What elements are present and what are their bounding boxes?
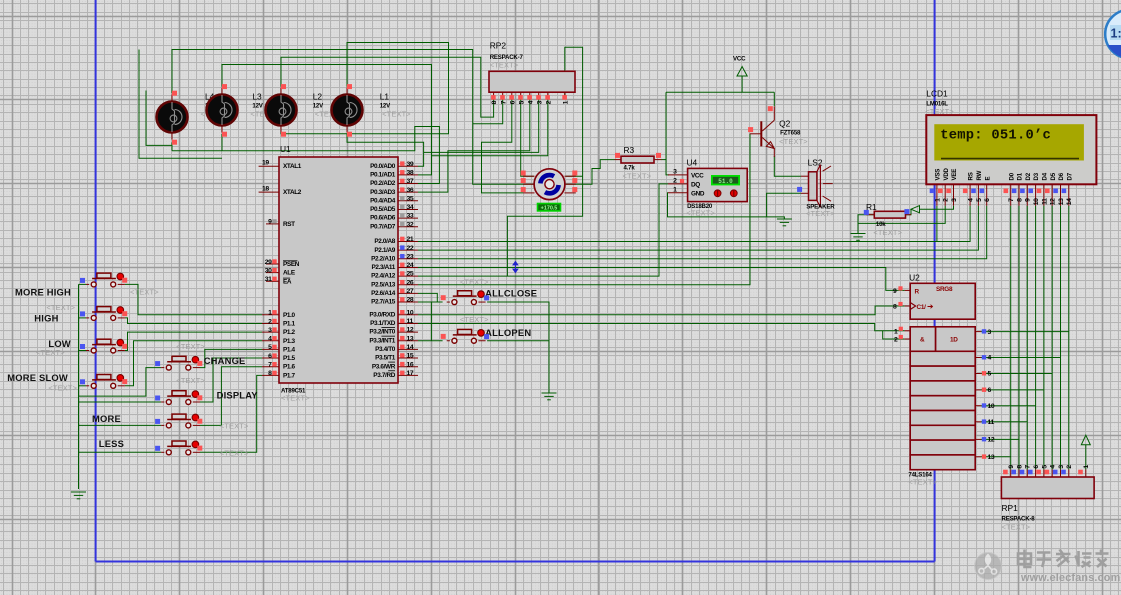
watermark elecfans logo <box>975 553 1002 580</box>
svg-text:<TEXT>: <TEXT> <box>873 228 902 237</box>
svg-text:P0.7/AD7: P0.7/AD7 <box>370 223 396 230</box>
svg-text:P3.2/INT0: P3.2/INT0 <box>369 329 395 336</box>
wire left ground rail <box>78 284 80 489</box>
svg-text:34: 34 <box>407 204 414 211</box>
svg-text:P2.7/A15: P2.7/A15 <box>371 299 396 306</box>
U1 right pins P2 <box>398 241 418 243</box>
transistor Q2 FZT658 <box>750 106 808 157</box>
button MORE SLOW <box>7 372 125 393</box>
button LOW <box>36 338 125 357</box>
svg-text:15: 15 <box>407 353 414 360</box>
resistor R3 <box>615 145 662 181</box>
svg-text:VDD: VDD <box>943 167 950 180</box>
wire RP1 pin1 VCC arrow <box>1085 445 1087 470</box>
wire motor right to R3 left <box>566 160 615 185</box>
svg-text:16: 16 <box>407 361 414 368</box>
svg-text:+170.5: +170.5 <box>541 205 558 211</box>
svg-text:12V: 12V <box>313 103 324 110</box>
svg-text:www.elecfans.com: www.elecfans.com <box>1020 572 1120 584</box>
svg-text:7: 7 <box>1025 465 1032 469</box>
svg-text:39: 39 <box>407 161 414 168</box>
svg-text:13: 13 <box>407 335 414 342</box>
svg-text:10k: 10k <box>876 221 886 228</box>
button MORE <box>92 413 249 431</box>
svg-text:DISPLAY: DISPLAY <box>217 389 259 400</box>
svg-text:P1.7: P1.7 <box>283 372 296 379</box>
svg-text:ALLOPEN: ALLOPEN <box>485 327 531 338</box>
power VCC <box>733 56 747 77</box>
svg-text:U1: U1 <box>280 144 291 154</box>
svg-text:D0: D0 <box>1008 172 1015 180</box>
svg-text:RP2: RP2 <box>490 41 507 51</box>
wire MORE SLOW button to P1.3 <box>79 385 87 387</box>
wires U2 outputs to data lines <box>981 331 1069 333</box>
svg-text:22: 22 <box>407 245 414 252</box>
svg-text:<TEXT>: <TEXT> <box>460 315 489 324</box>
lamp L2 <box>280 88 282 96</box>
svg-text:P0.3/AD3: P0.3/AD3 <box>370 189 396 196</box>
svg-text:P3.3/INT1: P3.3/INT1 <box>369 337 395 344</box>
wires LCD D0-D7 verticals to RP1 <box>1010 206 1012 470</box>
svg-text:C1/: C1/ <box>917 304 927 311</box>
svg-text:5: 5 <box>988 371 992 378</box>
svg-text:VCC: VCC <box>691 173 704 180</box>
svg-text:MORE SLOW: MORE SLOW <box>7 372 68 383</box>
svg-text:6: 6 <box>1033 465 1040 469</box>
svg-text:LESS: LESS <box>99 438 124 449</box>
svg-text:SRG8: SRG8 <box>936 286 953 293</box>
svg-text:D4: D4 <box>1042 172 1049 180</box>
svg-text:6: 6 <box>268 353 272 360</box>
svg-text:8: 8 <box>1016 198 1023 202</box>
button LESS <box>99 438 249 458</box>
svg-text:P0.1/AD1: P0.1/AD1 <box>370 171 396 178</box>
svg-text:8: 8 <box>491 100 498 104</box>
U1 left pins XTAL RST <box>259 165 279 167</box>
svg-text:35: 35 <box>407 195 414 202</box>
svg-text:P3.7/RD: P3.7/RD <box>373 372 395 379</box>
svg-text:12V: 12V <box>380 103 391 110</box>
wire U1 pin10 RXD to U2 clock pin8 <box>418 306 905 315</box>
button DISPLAY <box>161 376 258 405</box>
wire motor upper right <box>566 175 583 177</box>
svg-text:L2: L2 <box>313 92 323 102</box>
wire RP2 pin3 <box>424 99 539 152</box>
wire LOW button to P1.2 <box>79 350 87 352</box>
svg-text:4: 4 <box>968 198 975 202</box>
svg-text:RESPACK-8: RESPACK-8 <box>1002 516 1036 523</box>
svg-text:D7: D7 <box>1066 172 1073 180</box>
svg-text:2: 2 <box>943 198 950 202</box>
svg-text:<TEXT>: <TEXT> <box>623 172 652 181</box>
desktop clock icon <box>1105 10 1121 59</box>
svg-text:VEE: VEE <box>951 169 958 181</box>
svg-text:P2.3/A11: P2.3/A11 <box>372 264 396 271</box>
svg-text:10: 10 <box>988 403 995 410</box>
wire lamp D top to lamp C bottom <box>281 43 449 134</box>
wire RP2 pin5 to motor upper-left <box>521 99 534 176</box>
wire RP2 pin1 to motor right rail <box>507 47 582 276</box>
svg-text:<TEXT>: <TEXT> <box>36 348 65 357</box>
watermark chinese text <box>1018 550 1109 568</box>
wire ALLOPEN right joins <box>487 340 549 342</box>
svg-text:P0.5/AD5: P0.5/AD5 <box>370 206 396 213</box>
wire lamp C top to RP2 pin8 <box>281 57 494 117</box>
wire RP2 pin2 <box>432 99 548 156</box>
svg-text:11: 11 <box>1041 198 1048 205</box>
svg-text:10: 10 <box>407 309 414 316</box>
svg-text:28: 28 <box>407 297 414 304</box>
svg-text:VCC: VCC <box>733 56 746 63</box>
svg-text:10: 10 <box>1033 198 1040 205</box>
wire U1 pin11 TXD to U2 data pin1 <box>418 323 905 330</box>
svg-text:RP1: RP1 <box>1002 503 1019 513</box>
svg-text:12: 12 <box>407 327 414 334</box>
svg-text:<TEXT>: <TEXT> <box>460 278 489 287</box>
display LCD1 LM016L <box>925 89 1096 206</box>
blue origin marker <box>513 262 518 273</box>
svg-text:P2.2/A10: P2.2/A10 <box>371 255 396 262</box>
svg-text:P3.5/T1: P3.5/T1 <box>375 355 396 362</box>
svg-text:U4: U4 <box>687 158 698 168</box>
svg-text:P1.5: P1.5 <box>283 355 296 362</box>
wire HIGH button to P1.1 <box>79 317 87 319</box>
svg-text:L3: L3 <box>252 92 262 102</box>
svg-text:GND: GND <box>691 190 705 197</box>
op U1 AT89C51 microcontroller <box>279 144 398 403</box>
svg-text:3: 3 <box>988 329 992 336</box>
svg-text:33: 33 <box>407 213 414 220</box>
wire ALLCLOSE right to ground rail <box>487 302 549 393</box>
wire LESS button to P1.7 <box>79 451 162 453</box>
svg-text:19: 19 <box>262 160 269 167</box>
svg-text:P2.6/A14: P2.6/A14 <box>371 290 396 297</box>
wire R1 right arrow to LCD VEE <box>906 209 912 215</box>
svg-text:5: 5 <box>518 100 525 104</box>
wire MORE button to P1.6 <box>79 424 162 426</box>
wire U1 pin23 rail to LCD E <box>418 206 987 259</box>
svg-text:<TEXT>: <TEXT> <box>176 342 205 351</box>
svg-text:P3.1/TXD: P3.1/TXD <box>370 320 396 327</box>
wire U1 pin28 to ALLCLOSE left <box>418 301 443 303</box>
wire U1 pin21 rail to LCD RS/VSS <box>418 206 970 242</box>
wire U1 pin13 to ALLOPEN left <box>418 340 443 342</box>
svg-text:14: 14 <box>407 344 414 351</box>
svg-text:P3.4/T0: P3.4/T0 <box>375 346 396 353</box>
svg-text:5: 5 <box>1041 465 1048 469</box>
U2 output pins <box>975 331 981 333</box>
svg-text:<TEXT>: <TEXT> <box>1002 523 1031 532</box>
svg-text:P3.0/RXD: P3.0/RXD <box>369 311 395 318</box>
resistor pack RP1 RESPACK-8 <box>1001 465 1094 532</box>
svg-text:<TEXT>: <TEXT> <box>490 61 519 70</box>
svg-text:<TEXT>: <TEXT> <box>806 209 835 218</box>
svg-text:36: 36 <box>407 187 414 194</box>
svg-text:DQ: DQ <box>691 182 700 189</box>
arrow pointing left at R1 right <box>911 206 920 213</box>
svg-text:32: 32 <box>407 221 414 228</box>
svg-text:11: 11 <box>407 318 414 325</box>
svg-text:4.7k: 4.7k <box>624 165 636 172</box>
svg-text:CHANGE: CHANGE <box>204 355 246 366</box>
svg-text:FZT658: FZT658 <box>780 130 801 137</box>
wire RP2 pin7 <box>473 99 503 124</box>
svg-text:Q2: Q2 <box>779 119 791 129</box>
wire U1 pin24 rail to U2 R pin9 <box>418 267 905 290</box>
svg-text:PSEN: PSEN <box>283 261 300 268</box>
svg-text:12: 12 <box>988 437 995 444</box>
svg-text:51.0: 51.0 <box>718 178 733 185</box>
svg-text:4: 4 <box>1050 465 1057 469</box>
svg-text:5: 5 <box>976 198 983 202</box>
svg-text:<TEXT>: <TEXT> <box>220 449 249 458</box>
wire RP2 pin6 to motor lower-left <box>482 99 524 193</box>
wire R1 left to ground and LCD VDD rail <box>858 215 874 234</box>
svg-text:8: 8 <box>893 304 897 311</box>
svg-text:7: 7 <box>500 100 507 104</box>
svg-text:31: 31 <box>265 276 272 283</box>
wire Q2 collector <box>773 92 775 106</box>
svg-text:P1.2: P1.2 <box>283 329 296 336</box>
svg-text:L1: L1 <box>380 92 390 102</box>
svg-text:LCD1: LCD1 <box>926 89 948 99</box>
wire lamps A B bottom rail <box>171 142 173 150</box>
svg-text:<TEXT>: <TEXT> <box>908 478 937 487</box>
sheet border frame <box>96 0 935 562</box>
svg-text:38: 38 <box>407 169 414 176</box>
svg-text:RS: RS <box>968 172 975 180</box>
svg-text:6: 6 <box>984 198 991 202</box>
wire U4 GND to ground <box>668 193 785 219</box>
svg-text:temp: 051.0’c: temp: 051.0’c <box>940 127 1051 143</box>
svg-text:9: 9 <box>268 219 272 226</box>
sensor U4 DS18B20 <box>668 158 747 218</box>
svg-text:1D: 1D <box>950 337 958 344</box>
svg-text:2: 2 <box>1066 465 1073 469</box>
svg-text:<TEXT>: <TEXT> <box>779 137 808 146</box>
svg-text:3: 3 <box>536 100 543 104</box>
svg-text:P0.6/AD6: P0.6/AD6 <box>370 215 396 222</box>
wire U1 pin27 to ALLCLOSE <box>418 293 437 302</box>
svg-text:1: 1 <box>1083 465 1090 469</box>
svg-text:1: 1 <box>934 198 941 202</box>
svg-text:23: 23 <box>407 253 414 260</box>
svg-text:2: 2 <box>268 318 272 325</box>
U1 left pins PSEN ALE EA <box>266 263 279 265</box>
wire CHANGE button to P1.4 <box>79 368 162 397</box>
svg-text:<TEXT>: <TEXT> <box>48 384 77 393</box>
svg-text:1:: 1: <box>1111 27 1121 41</box>
svg-text:18: 18 <box>262 186 269 193</box>
svg-text:D5: D5 <box>1050 172 1057 180</box>
svg-text:26: 26 <box>407 279 414 286</box>
U1 left pins P1 <box>262 314 279 316</box>
svg-text:25: 25 <box>407 271 414 278</box>
wire Q2 emitter to speaker <box>774 156 801 176</box>
svg-text:<TEXT>: <TEXT> <box>382 110 411 119</box>
svg-text:P2.1/A9: P2.1/A9 <box>374 247 395 254</box>
resistor pack RP2 RESPACK-7 <box>489 41 575 105</box>
svg-text:XTAL2: XTAL2 <box>283 189 302 196</box>
svg-text:P1.3: P1.3 <box>283 338 296 345</box>
svg-text:U2: U2 <box>909 273 920 283</box>
svg-text:<TEXT>: <TEXT> <box>281 394 310 403</box>
svg-text:11: 11 <box>988 419 995 426</box>
ground below ALLCLOSE/ALLOPEN <box>542 393 557 400</box>
svg-text:4: 4 <box>527 100 534 104</box>
svg-text:8: 8 <box>1016 465 1023 469</box>
svg-text:R: R <box>915 288 920 295</box>
lamp L4 <box>171 95 173 103</box>
svg-text:RST: RST <box>283 221 295 228</box>
svg-text:D1: D1 <box>1017 172 1024 180</box>
svg-text:<TEXT>: <TEXT> <box>130 288 159 297</box>
speaker LS2 <box>801 158 835 219</box>
svg-text:P0.2/AD2: P0.2/AD2 <box>370 180 396 187</box>
svg-text:<TEXT>: <TEXT> <box>46 303 75 312</box>
svg-text:21: 21 <box>407 236 414 243</box>
svg-text:1: 1 <box>894 328 898 335</box>
lamp L1 <box>346 88 348 96</box>
wire RP2 pin4 to U1 pin36 <box>418 99 530 192</box>
button ALLOPEN <box>447 315 532 343</box>
svg-text:30: 30 <box>265 267 272 274</box>
button CHANGE <box>161 342 245 370</box>
svg-text:9: 9 <box>1025 198 1032 202</box>
svg-text:9: 9 <box>893 288 897 295</box>
svg-text:13: 13 <box>1058 198 1065 205</box>
svg-text:6: 6 <box>988 387 992 394</box>
wire lamp B top to U1 pin38 <box>222 65 432 175</box>
svg-text:12: 12 <box>1050 198 1057 205</box>
svg-text:P3.6/WR: P3.6/WR <box>372 363 396 370</box>
svg-text:12V: 12V <box>252 103 263 110</box>
svg-text:<TEXT>: <TEXT> <box>220 422 249 431</box>
svg-text:3: 3 <box>1058 465 1065 469</box>
svg-text:P1.4: P1.4 <box>283 346 296 353</box>
lamp L3 <box>221 88 223 96</box>
wire LCD VSS down <box>936 206 938 242</box>
ground near speaker <box>777 219 792 226</box>
svg-text:P0.0/AD0: P0.0/AD0 <box>370 163 396 170</box>
svg-text:D3: D3 <box>1033 172 1040 180</box>
wire U4 DQ to U1 pin25 <box>418 184 668 276</box>
wire left lamp loop outer <box>139 50 222 159</box>
svg-text:P2.5/A13: P2.5/A13 <box>371 281 396 288</box>
wire speaker lower to ground <box>767 193 801 217</box>
U1 right pins P0 <box>398 165 418 167</box>
svg-text:HIGH: HIGH <box>34 313 58 324</box>
wire U2 data pin2 tie <box>883 331 905 339</box>
wire left lamp loop inner <box>146 91 172 146</box>
svg-text:P0.4/AD4: P0.4/AD4 <box>370 197 396 204</box>
svg-text:ALE: ALE <box>283 270 296 277</box>
motor speed badge <box>538 204 561 211</box>
U1 right pins P3 <box>398 314 418 316</box>
svg-text:37: 37 <box>407 178 414 185</box>
svg-text:R3: R3 <box>624 145 635 155</box>
wire MORE HIGH button to P1.0 <box>79 283 87 285</box>
svg-text:27: 27 <box>407 288 414 295</box>
wire lamp A top to motor left <box>172 50 534 185</box>
button ALLCLOSE <box>447 278 538 305</box>
svg-text:D2: D2 <box>1025 172 1032 180</box>
wire lamp D bottom to U1 pin39 <box>347 134 424 166</box>
wire VCC rail to R3 right / U4 VCC <box>741 76 743 92</box>
svg-text:13: 13 <box>988 454 995 461</box>
svg-text:RW: RW <box>976 170 983 180</box>
wire U1 pin22 rail to LCD RW <box>418 206 978 250</box>
shift register U2 74LS164 <box>893 273 975 487</box>
button HIGH <box>34 303 125 324</box>
svg-text:P2.4/A12: P2.4/A12 <box>371 273 396 280</box>
svg-text:&: & <box>920 337 925 344</box>
svg-text:P1.6: P1.6 <box>283 364 296 371</box>
svg-text:MORE HIGH: MORE HIGH <box>15 287 71 298</box>
svg-text:EA: EA <box>283 278 292 285</box>
svg-text:P1.0: P1.0 <box>283 312 296 319</box>
wire DISPLAY button to P1.5 <box>79 401 162 403</box>
svg-text:24: 24 <box>407 262 414 269</box>
wire Q2 base to U1 pin26 <box>418 134 750 285</box>
svg-text:D6: D6 <box>1058 172 1065 180</box>
svg-text:29: 29 <box>265 259 272 266</box>
svg-text:P1.1: P1.1 <box>283 320 296 327</box>
svg-text:<TEXT>: <TEXT> <box>686 209 715 218</box>
svg-text:MORE: MORE <box>92 413 121 424</box>
svg-text:14: 14 <box>1066 198 1073 205</box>
svg-text:17: 17 <box>407 370 414 377</box>
svg-text:E: E <box>984 177 991 181</box>
svg-text:XTAL1: XTAL1 <box>283 163 302 170</box>
resistor R1 <box>866 202 911 237</box>
button MORE HIGH <box>15 273 159 297</box>
svg-text:VSS: VSS <box>935 169 942 181</box>
svg-text:P2.0/A8: P2.0/A8 <box>374 238 395 245</box>
wire ALLCLOSE left down to ALLOPEN left <box>430 302 432 341</box>
svg-text:8: 8 <box>268 370 272 377</box>
motor <box>523 169 576 200</box>
svg-text:ALLCLOSE: ALLCLOSE <box>485 287 537 298</box>
svg-text:<TEXT>: <TEXT> <box>176 376 205 385</box>
